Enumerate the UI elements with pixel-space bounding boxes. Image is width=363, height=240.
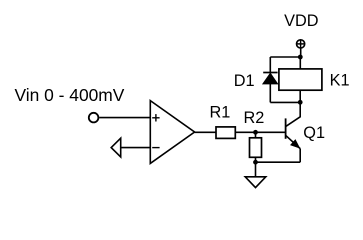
svg-text:R2: R2 (244, 109, 265, 127)
resistor R2 (250, 138, 262, 158)
svg-text:Q1: Q1 (303, 124, 325, 142)
op-amp comparator (150, 101, 194, 164)
pin + (non-inverting input marker) (152, 114, 159, 121)
wire lower junction to ground (255, 162, 257, 177)
wire junction to diode cathode branch (270, 56, 300, 58)
wire arrow to op-amp inverting input (121, 147, 151, 149)
wire relay bottom to collector junction (299, 90, 301, 102)
junction node R1/R2/base (253, 130, 258, 135)
svg-text:K1: K1 (330, 72, 350, 90)
wire diode anode to collector junction (270, 101, 300, 103)
svg-text:Vin 0 - 400mV: Vin 0 - 400mV (15, 85, 125, 105)
wire R2 bottom to lower junction (255, 157, 257, 162)
wire diode cathode vertical (269, 57, 271, 72)
arrow connector on inverting input (111, 138, 121, 157)
wire VDD terminal to junction (300, 48, 302, 57)
svg-text:R1: R1 (210, 103, 231, 121)
wire junction to R2 top (255, 132, 257, 138)
ground (245, 177, 266, 188)
svg-text:VDD: VDD (284, 12, 318, 30)
wire VDD junction to relay top (299, 57, 301, 69)
junction node collector/diode/relay (298, 100, 303, 105)
diode D1 (263, 73, 278, 84)
pin - (inverting input marker) (152, 147, 159, 149)
wire Vin terminal to op-amp non-inverting input (99, 117, 150, 119)
node Vin input terminal (89, 113, 99, 123)
junction node R2/emitter/ground (253, 160, 258, 165)
relay coil K1 (279, 69, 322, 90)
wire R1 to Q1 base (235, 131, 285, 133)
resistor R1 (216, 127, 235, 138)
transistor Q1 (286, 102, 301, 162)
svg-text:D1: D1 (234, 72, 255, 90)
junction node VDD/diode/relay (298, 55, 303, 60)
power terminal VDD (circle with plus) (297, 40, 305, 48)
wire op-amp output to R1 (195, 131, 216, 133)
wire lower junction to emitter (256, 161, 301, 163)
wire diode anode vertical (269, 84, 271, 103)
